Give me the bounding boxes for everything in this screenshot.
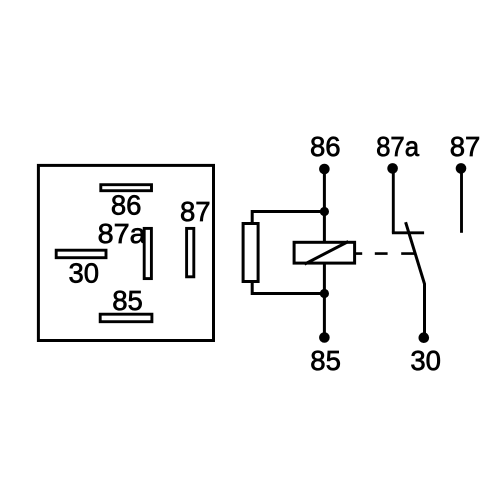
svg-text:87a: 87a (98, 218, 147, 249)
junction node (86 side) (320, 207, 329, 216)
pin slot 30 (left horizontal) (56, 250, 106, 258)
terminal dot 87a (387, 163, 398, 174)
terminal dot 30 (419, 332, 430, 343)
svg-text:86: 86 (310, 131, 341, 162)
svg-text:30: 30 (410, 345, 441, 376)
pin slot 86 (top horizontal) (101, 185, 152, 191)
svg-text:86: 86 (111, 190, 142, 221)
junction node (85 side) (320, 289, 329, 298)
pin slot 85 (bottom horizontal) (100, 314, 152, 322)
svg-text:85: 85 (310, 345, 341, 376)
svg-text:87: 87 (450, 131, 481, 162)
wire 86 to 85 (main coil wire) (323, 169, 326, 338)
wire terminal 87 (460, 169, 463, 233)
wire resistor branch (parallel loop) (252, 212, 324, 294)
svg-text:87a: 87a (376, 131, 420, 162)
pin slot 87a (middle vertical) (144, 228, 151, 278)
wire terminal 87a (392, 169, 395, 233)
pin slot 87 (right vertical) (187, 228, 194, 276)
terminal dot 85 (319, 332, 330, 343)
mechanical link (dashed) (356, 252, 415, 255)
terminal dot 86 (319, 164, 330, 175)
switch lever (406, 222, 425, 337)
terminal dot 87 (456, 163, 467, 174)
svg-text:87: 87 (180, 196, 211, 227)
svg-text:30: 30 (69, 257, 100, 288)
resistor (parallel to coil) (243, 224, 258, 282)
coil K1 (294, 242, 355, 265)
contact foot 87a (392, 231, 424, 234)
relay socket outline (pin-view box) (38, 165, 213, 340)
svg-text:85: 85 (112, 285, 143, 316)
